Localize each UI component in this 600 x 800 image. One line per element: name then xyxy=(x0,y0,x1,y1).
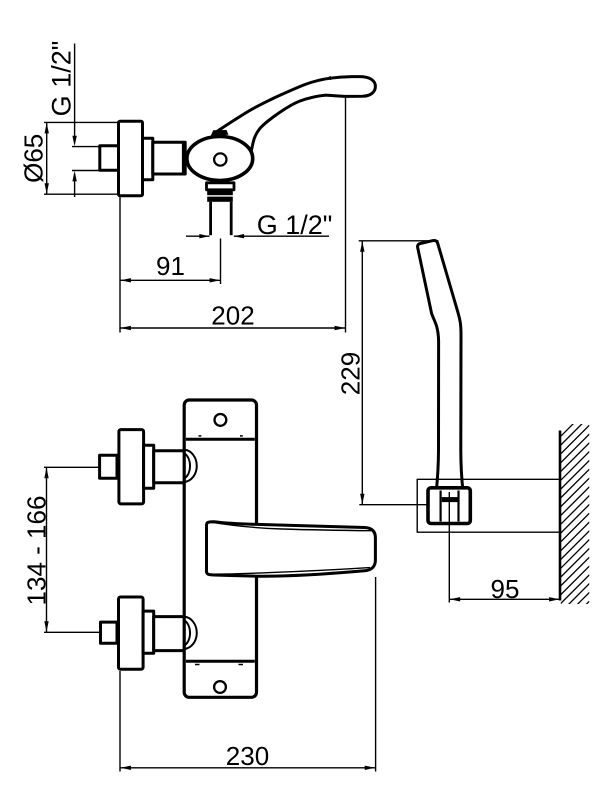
arrow Ø65 up xyxy=(45,123,49,133)
mixer body (front) xyxy=(184,400,256,697)
dim Ø65 line xyxy=(46,122,48,194)
bottom inlet bump arc inner xyxy=(185,620,190,645)
arrow G1/2 wall down xyxy=(72,136,76,147)
dim 91 line xyxy=(120,279,221,281)
wall line xyxy=(559,431,562,601)
arrow G1/2 outlet right xyxy=(199,234,210,238)
body screw circle xyxy=(214,153,226,165)
holder inner left wall xyxy=(440,491,442,522)
supply tube xyxy=(153,142,185,174)
bottom union flange (front) xyxy=(119,597,144,669)
top inlet bump arc outer xyxy=(185,450,197,482)
top union flange (front) xyxy=(119,430,144,504)
dim 134-166 line xyxy=(46,467,48,632)
dim G1/2 outlet underline xyxy=(234,235,329,237)
svg-text:G 1/2": G 1/2" xyxy=(257,210,333,240)
svg-text:Ø65: Ø65 xyxy=(19,134,49,183)
dim 134-166 ext top xyxy=(44,466,100,468)
dim 202 right extension xyxy=(345,98,347,333)
dim 230 line xyxy=(120,767,376,769)
shower handle and tube xyxy=(418,240,463,490)
holder nut band xyxy=(442,497,458,502)
arrow 91 right xyxy=(210,278,221,282)
dim G1/2 leader (wall inlet) xyxy=(74,44,76,138)
outlet pipe left edge xyxy=(209,202,212,235)
svg-text:91: 91 xyxy=(156,251,185,281)
dim 230 right extension xyxy=(375,577,377,772)
lever handle xyxy=(216,77,376,151)
arrow G1/2 outlet left xyxy=(234,234,245,238)
arrow 229 down xyxy=(360,494,364,505)
dim G1/2 ext top xyxy=(72,146,100,148)
bottom union nut (front) xyxy=(101,622,118,643)
outlet thread band 1 xyxy=(207,190,233,195)
bottom union pipe xyxy=(154,617,185,651)
arrow 230 right xyxy=(365,766,376,770)
arrow 202 right xyxy=(335,326,346,330)
dim G1/2 outlet line left xyxy=(186,235,210,237)
wall flange (side view) xyxy=(119,121,143,196)
top union nut (front) xyxy=(100,455,117,478)
bottom union ring xyxy=(143,611,154,653)
bottom section dash right xyxy=(239,664,244,666)
dim 202 line xyxy=(120,327,346,329)
arrow G1/2 wall up xyxy=(72,171,76,182)
outlet collar xyxy=(207,183,235,190)
svg-text:95: 95 xyxy=(491,574,520,604)
wall hatching xyxy=(560,408,590,631)
dimensions xyxy=(44,44,560,772)
top section line xyxy=(186,438,255,441)
arrow 95 right xyxy=(549,597,560,601)
bottom screw hole xyxy=(214,681,226,693)
bottom inlet bump arc outer xyxy=(185,617,197,649)
dim 91/202 left extension xyxy=(119,197,121,333)
shower holder xyxy=(428,488,470,524)
lever pivot tab xyxy=(211,130,229,136)
arrow 202 left xyxy=(120,326,130,330)
dim 229 ref bottom xyxy=(359,504,428,506)
holder centerline / 95 extension xyxy=(448,492,450,603)
top section dash left xyxy=(199,435,202,437)
svg-text:230: 230 xyxy=(226,741,269,771)
arrow 134-166 down xyxy=(44,621,48,632)
arrow Ø65 down xyxy=(45,183,49,194)
top section dash right xyxy=(240,435,243,437)
mixer body ellipse xyxy=(187,137,253,181)
svg-text:229: 229 xyxy=(336,352,366,395)
outlet thread band 2 xyxy=(207,197,233,202)
dim 95 line xyxy=(449,598,560,600)
handle seam tick xyxy=(329,76,332,80)
spout xyxy=(207,522,376,577)
dim Ø65 extension bottom xyxy=(44,193,119,195)
arrow 91 left xyxy=(120,278,130,282)
outlet pipe right edge xyxy=(230,202,233,235)
arrow 95 left xyxy=(450,597,461,601)
holder inner right wall xyxy=(457,491,459,522)
dim 134-166 ext bottom xyxy=(44,631,101,633)
wall nut G1/2 (side view) xyxy=(100,146,120,171)
dim 230 left extension xyxy=(119,671,121,772)
dim G1/2 ext bottom xyxy=(72,170,100,172)
spout bottom inner line xyxy=(212,568,370,575)
arrowheads xyxy=(44,123,559,770)
bottom section line xyxy=(186,660,255,663)
flange neck xyxy=(143,138,153,180)
dim Ø65 extension top xyxy=(44,121,119,123)
svg-text:G 1/2": G 1/2" xyxy=(47,41,77,117)
arrow 134-166 up xyxy=(44,468,48,479)
dim 229 line xyxy=(361,241,363,505)
spout top inner line xyxy=(212,522,371,530)
top union pipe xyxy=(154,451,185,483)
dim 229 ref top xyxy=(359,240,439,242)
arrow 229 up xyxy=(360,241,364,252)
arrow 230 left xyxy=(120,766,130,770)
bottom section dash left xyxy=(195,664,200,666)
top inlet bump arc inner xyxy=(185,453,190,478)
svg-text:202: 202 xyxy=(211,300,254,330)
bracket mount plate xyxy=(417,479,560,532)
top union ring xyxy=(144,445,154,488)
top screw hole xyxy=(215,414,227,426)
dim 91 right extension xyxy=(220,239,222,285)
svg-text:134 - 166: 134 - 166 xyxy=(22,496,52,606)
supply tube right edge xyxy=(182,142,185,174)
dim G1/2 lower tail xyxy=(74,174,76,197)
